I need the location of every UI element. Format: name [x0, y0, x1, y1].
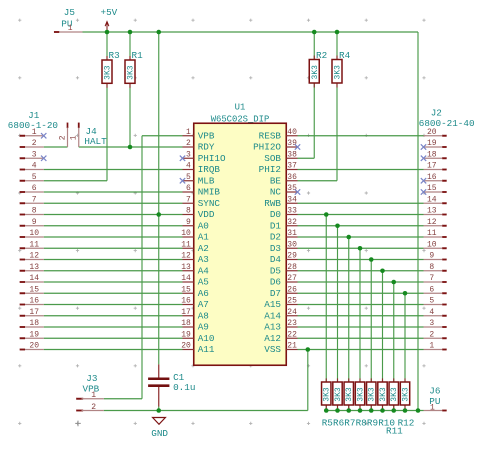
svg-text:18: 18	[181, 319, 191, 328]
svg-text:3: 3	[429, 319, 434, 328]
svg-text:A14: A14	[264, 310, 281, 321]
svg-text:1: 1	[68, 24, 73, 33]
svg-text:10: 10	[181, 229, 191, 238]
svg-text:1: 1	[91, 391, 96, 400]
svg-text:A4: A4	[198, 265, 210, 276]
svg-text:2: 2	[429, 330, 434, 339]
svg-text:23: 23	[287, 319, 297, 328]
svg-text:SYNC: SYNC	[198, 198, 221, 209]
svg-text:PHI2: PHI2	[259, 164, 281, 175]
svg-text:24: 24	[287, 308, 297, 317]
svg-text:U1: U1	[235, 102, 246, 112]
svg-text:3K3: 3K3	[379, 387, 388, 402]
svg-text:16: 16	[427, 173, 437, 182]
svg-text:14: 14	[181, 274, 191, 283]
svg-text:12: 12	[29, 252, 39, 261]
svg-text:19: 19	[181, 330, 191, 339]
svg-text:2: 2	[186, 139, 191, 148]
svg-text:7: 7	[429, 274, 434, 283]
svg-text:R2: R2	[316, 50, 327, 61]
svg-text:0.1u: 0.1u	[173, 382, 195, 393]
svg-text:RWB: RWB	[264, 198, 281, 209]
svg-text:VDD: VDD	[198, 209, 215, 220]
svg-text:13: 13	[181, 263, 191, 272]
svg-text:28: 28	[287, 263, 297, 272]
svg-text:1: 1	[429, 342, 434, 351]
svg-text:J2: J2	[431, 107, 442, 118]
svg-text:19: 19	[427, 139, 437, 148]
svg-text:3K3: 3K3	[127, 65, 136, 80]
svg-text:18: 18	[29, 319, 39, 328]
svg-text:3K3: 3K3	[356, 387, 365, 402]
svg-text:R3: R3	[109, 50, 120, 61]
svg-text:34: 34	[287, 195, 297, 204]
svg-text:30: 30	[287, 240, 297, 249]
svg-text:A6: A6	[198, 288, 209, 299]
svg-text:8: 8	[186, 207, 191, 216]
svg-text:D2: D2	[270, 232, 281, 243]
svg-text:R11: R11	[386, 426, 403, 437]
svg-text:37: 37	[287, 162, 297, 171]
svg-text:39: 39	[287, 139, 297, 148]
svg-text:15: 15	[427, 184, 437, 193]
svg-text:3K3: 3K3	[368, 387, 377, 402]
svg-text:11: 11	[427, 229, 437, 238]
svg-text:5: 5	[32, 173, 37, 182]
svg-text:D7: D7	[270, 288, 281, 299]
svg-text:12: 12	[181, 252, 191, 261]
svg-text:GND: GND	[151, 428, 168, 439]
svg-text:17: 17	[181, 308, 191, 317]
svg-text:22: 22	[287, 330, 297, 339]
svg-text:2: 2	[32, 139, 37, 148]
svg-text:38: 38	[287, 150, 297, 159]
svg-text:D0: D0	[270, 209, 281, 220]
svg-text:2: 2	[91, 403, 96, 412]
svg-text:IRQB: IRQB	[198, 164, 221, 175]
svg-text:20: 20	[29, 342, 39, 351]
svg-text:SOB: SOB	[264, 153, 281, 164]
svg-text:9: 9	[186, 218, 191, 227]
svg-text:29: 29	[287, 252, 297, 261]
svg-text:NMIB: NMIB	[198, 187, 221, 198]
svg-text:17: 17	[427, 162, 437, 171]
svg-text:A2: A2	[198, 243, 209, 254]
svg-text:3K3: 3K3	[311, 65, 320, 80]
svg-text:12: 12	[427, 218, 437, 227]
svg-text:13: 13	[29, 263, 39, 272]
svg-text:35: 35	[287, 184, 297, 193]
svg-text:15: 15	[181, 285, 191, 294]
svg-text:3K3: 3K3	[390, 387, 399, 402]
svg-text:A9: A9	[198, 322, 209, 333]
svg-text:7: 7	[32, 195, 37, 204]
svg-text:R5: R5	[322, 417, 333, 428]
svg-text:14: 14	[29, 274, 39, 283]
svg-text:RESB: RESB	[259, 130, 282, 141]
svg-text:3K3: 3K3	[104, 65, 113, 80]
svg-text:3: 3	[186, 150, 191, 159]
svg-text:D4: D4	[270, 254, 282, 265]
svg-text:15: 15	[29, 285, 39, 294]
svg-text:D5: D5	[270, 265, 281, 276]
svg-text:9: 9	[429, 252, 434, 261]
svg-text:3K3: 3K3	[334, 65, 343, 80]
svg-text:1: 1	[430, 403, 435, 412]
svg-text:HALT: HALT	[84, 136, 107, 147]
svg-text:17: 17	[29, 308, 39, 317]
svg-text:8: 8	[32, 207, 37, 216]
svg-text:A13: A13	[264, 322, 281, 333]
svg-text:9: 9	[32, 218, 37, 227]
svg-text:1: 1	[32, 128, 37, 137]
svg-text:7: 7	[186, 195, 191, 204]
svg-text:+5V: +5V	[101, 7, 118, 18]
svg-text:D6: D6	[270, 277, 281, 288]
svg-text:8: 8	[429, 263, 434, 272]
svg-text:13: 13	[427, 207, 437, 216]
svg-text:R6: R6	[333, 417, 344, 428]
svg-text:R8: R8	[356, 417, 367, 428]
svg-text:J6: J6	[429, 385, 440, 396]
svg-text:6: 6	[186, 184, 191, 193]
svg-text:R4: R4	[339, 50, 351, 61]
svg-text:10: 10	[427, 240, 437, 249]
svg-text:W65C02S_DIP: W65C02S_DIP	[211, 114, 270, 124]
svg-text:BE: BE	[270, 175, 282, 186]
svg-text:A5: A5	[198, 277, 209, 288]
svg-text:11: 11	[181, 240, 191, 249]
svg-text:32: 32	[287, 218, 297, 227]
svg-text:3K3: 3K3	[401, 387, 410, 402]
svg-text:A3: A3	[198, 254, 209, 265]
svg-text:VSS: VSS	[264, 344, 281, 355]
svg-text:A1: A1	[198, 232, 210, 243]
svg-text:MLB: MLB	[198, 175, 215, 186]
svg-text:1: 1	[70, 135, 79, 140]
svg-text:18: 18	[427, 150, 437, 159]
svg-text:NC: NC	[270, 187, 282, 198]
svg-text:14: 14	[427, 195, 437, 204]
svg-text:R1: R1	[132, 50, 144, 61]
svg-text:10: 10	[29, 229, 39, 238]
svg-text:R7: R7	[344, 417, 355, 428]
svg-text:3K3: 3K3	[334, 387, 343, 402]
svg-text:A8: A8	[198, 310, 209, 321]
svg-text:6: 6	[32, 184, 37, 193]
svg-text:3K3: 3K3	[345, 387, 354, 402]
svg-text:25: 25	[287, 297, 297, 306]
svg-text:A0: A0	[198, 220, 209, 231]
svg-text:20: 20	[181, 342, 191, 351]
svg-text:2: 2	[58, 135, 67, 140]
svg-text:26: 26	[287, 285, 297, 294]
svg-text:33: 33	[287, 207, 297, 216]
svg-text:A10: A10	[198, 333, 215, 344]
svg-text:PHI2O: PHI2O	[253, 142, 281, 153]
svg-text:R9: R9	[367, 417, 378, 428]
svg-text:16: 16	[181, 297, 191, 306]
svg-text:11: 11	[29, 240, 39, 249]
svg-text:A7: A7	[198, 299, 209, 310]
svg-text:J5: J5	[64, 7, 75, 18]
svg-text:20: 20	[427, 128, 437, 137]
svg-text:4: 4	[186, 162, 191, 171]
svg-text:4: 4	[32, 162, 37, 171]
svg-text:D3: D3	[270, 243, 281, 254]
svg-text:4: 4	[429, 308, 434, 317]
svg-text:16: 16	[29, 297, 39, 306]
svg-text:3K3: 3K3	[323, 387, 332, 402]
svg-text:36: 36	[287, 173, 297, 182]
svg-text:A15: A15	[264, 299, 281, 310]
svg-text:21: 21	[287, 342, 297, 351]
svg-text:27: 27	[287, 274, 297, 283]
svg-text:D1: D1	[270, 220, 282, 231]
svg-text:PHI1O: PHI1O	[198, 153, 226, 164]
svg-text:19: 19	[29, 330, 39, 339]
svg-text:3: 3	[32, 150, 37, 159]
svg-text:A12: A12	[264, 333, 281, 344]
svg-text:5: 5	[186, 173, 191, 182]
svg-text:RDY: RDY	[198, 142, 215, 153]
svg-text:5: 5	[429, 297, 434, 306]
svg-text:VPB: VPB	[198, 130, 215, 141]
svg-text:A11: A11	[198, 344, 215, 355]
svg-text:6: 6	[429, 285, 434, 294]
svg-text:31: 31	[287, 229, 297, 238]
svg-text:1: 1	[186, 128, 191, 137]
svg-text:40: 40	[287, 128, 297, 137]
